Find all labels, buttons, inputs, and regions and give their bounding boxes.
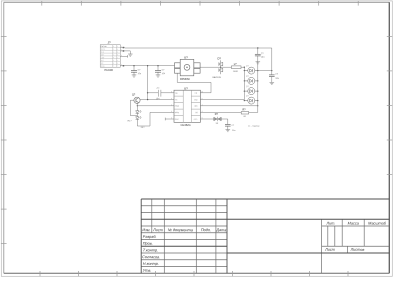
- svg-text:5: 5: [171, 91, 172, 93]
- svg-text:4: 4: [121, 49, 122, 51]
- svg-text:5: 5: [113, 60, 114, 62]
- svg-text:2: 2: [117, 46, 118, 48]
- svg-text:1: 1: [113, 49, 114, 51]
- svg-text:Tin: Tin: [175, 99, 177, 101]
- svg-text:com: com: [194, 119, 198, 121]
- svg-text:Подп.: Подп.: [201, 228, 211, 232]
- svg-text:10n: 10n: [232, 130, 235, 132]
- svg-text:4: 4: [113, 57, 114, 59]
- svg-text:100R: 100R: [233, 71, 238, 73]
- svg-text:ПИТ.МК: ПИТ.МК: [101, 46, 107, 48]
- svg-text:7: 7: [113, 66, 114, 68]
- svg-text:D?: D?: [217, 57, 221, 61]
- svg-text:2: 2: [113, 52, 114, 54]
- svg-text:Н.контр.: Н.контр.: [143, 262, 159, 266]
- svg-text:Bout: Bout: [175, 118, 179, 121]
- svg-text:2: 2: [171, 117, 172, 119]
- svg-text:13: 13: [201, 91, 203, 93]
- svg-text:CH452G: CH452G: [180, 123, 190, 127]
- svg-text:Dnp: Dnp: [194, 99, 197, 101]
- svg-text:5: 5: [202, 117, 203, 119]
- svg-text:Vig: Vig: [175, 93, 178, 95]
- svg-text:Масштаб: Масштаб: [368, 221, 387, 225]
- svg-text:2: 2: [121, 46, 122, 48]
- svg-text:3: 3: [117, 60, 118, 62]
- svg-text:Утв.: Утв.: [143, 269, 152, 273]
- svg-text:4: 4: [202, 111, 203, 113]
- svg-text:Лист: Лист: [152, 228, 163, 232]
- svg-text:6: 6: [121, 55, 122, 57]
- svg-text:Пров.: Пров.: [143, 242, 153, 246]
- svg-text:6: 6: [171, 98, 172, 100]
- svg-text:1: 1: [202, 104, 203, 106]
- svg-text:Лист: Лист: [324, 248, 335, 252]
- svg-text:PLD4R: PLD4R: [104, 68, 113, 72]
- svg-text:Дата: Дата: [215, 228, 226, 232]
- svg-text:8: 8: [113, 46, 114, 48]
- svg-text:Согласов.: Согласов.: [142, 255, 160, 259]
- svg-text:4: 4: [117, 49, 118, 51]
- svg-text:Изм.: Изм.: [142, 228, 150, 232]
- svg-text:1: 1: [171, 104, 172, 106]
- svg-text:xx - подбор: xx - подбор: [248, 125, 260, 127]
- svg-text:Разраб.: Разраб.: [143, 235, 157, 239]
- svg-text:RPM060: RPM060: [180, 78, 190, 81]
- svg-text:7: 7: [117, 66, 118, 68]
- svg-text:PWR: PWR: [175, 106, 180, 108]
- svg-text:4: 4: [171, 111, 172, 113]
- svg-text:Clk: Clk: [195, 93, 198, 95]
- svg-text:U?: U?: [184, 56, 188, 60]
- svg-text:1: 1: [117, 57, 118, 59]
- svg-text:5: 5: [117, 63, 118, 65]
- svg-text:U?: U?: [184, 86, 188, 90]
- svg-text:6: 6: [117, 52, 118, 54]
- svg-text:6: 6: [113, 63, 114, 65]
- svg-text:Масса: Масса: [348, 221, 359, 225]
- svg-text:Листов: Листов: [350, 248, 365, 252]
- svg-text:Т.контр.: Т.контр.: [143, 248, 158, 252]
- svg-text:№ документа: № документа: [168, 228, 193, 232]
- svg-text:J?: J?: [107, 41, 111, 45]
- svg-text:BAV99W: BAV99W: [212, 76, 220, 79]
- svg-text:3: 3: [113, 54, 114, 56]
- svg-text:8: 8: [117, 54, 118, 56]
- svg-text:6: 6: [202, 98, 203, 100]
- svg-text:8: 8: [121, 64, 122, 66]
- svg-text:INT: INT: [101, 60, 104, 62]
- svg-text:Лит.: Лит.: [326, 221, 336, 225]
